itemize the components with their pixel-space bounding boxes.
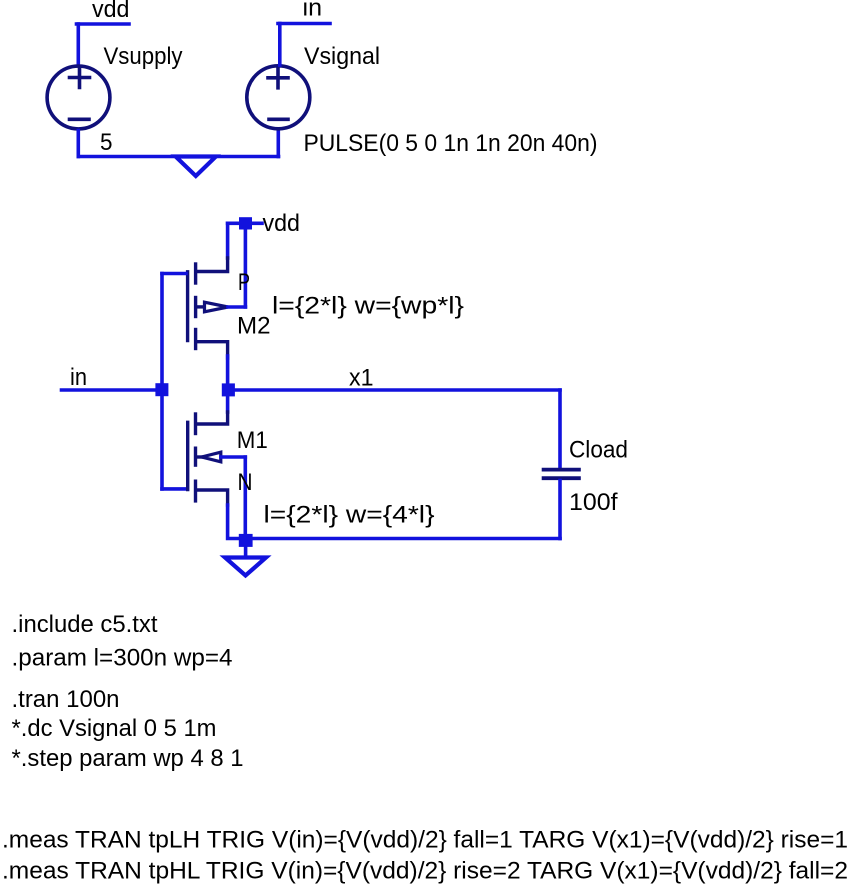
- transistor M2 (PMOS): [188, 258, 228, 358]
- wire gnd rail bottom: [253, 537, 560, 541]
- svg-text:Vsignal: Vsignal: [304, 43, 380, 70]
- wire in label lead: [278, 22, 330, 26]
- wire gates vertical: [160, 274, 164, 489]
- svg-text:.tran 100n: .tran 100n: [12, 686, 120, 713]
- svg-text:100f: 100f: [569, 489, 618, 516]
- wire vdd stub left: [228, 222, 239, 226]
- transistor M1 (NMOS): [188, 412, 228, 505]
- svg-text:l={2*l} w={wp*l}: l={2*l} w={wp*l}: [272, 293, 464, 320]
- wire in lead: [62, 388, 163, 392]
- wire x1: [235, 388, 560, 392]
- wire M1 bulk to gnd: [244, 457, 248, 534]
- junction out: [222, 383, 235, 396]
- svg-text:.meas TRAN tpLH TRIG V(in)={V(: .meas TRAN tpLH TRIG V(in)={V(vdd)/2} fa…: [2, 827, 848, 854]
- wire vdd to M2 source: [226, 223, 230, 258]
- wire gnd stub: [244, 547, 248, 557]
- voltage source Vsupply: [47, 66, 110, 129]
- wire Vsignal minus to gnd rail: [276, 131, 280, 157]
- wire M1 gate lead: [162, 487, 186, 491]
- wire Cload to gnd rail: [558, 481, 562, 539]
- svg-text:Vsupply: Vsupply: [104, 43, 183, 70]
- svg-text:in: in: [70, 364, 87, 391]
- svg-text:.meas TRAN tpHL TRIG V(in)={V(: .meas TRAN tpHL TRIG V(in)={V(vdd)/2} ri…: [2, 858, 848, 885]
- svg-text:PULSE(0 5 0 1n 1n 20n 40n): PULSE(0 5 0 1n 1n 20n 40n): [304, 130, 598, 157]
- svg-text:vdd: vdd: [92, 0, 130, 23]
- svg-text:.include c5.txt: .include c5.txt: [12, 611, 158, 638]
- wire Vsupply minus to gnd rail: [77, 131, 81, 157]
- svg-text:*.step param wp 4 8 1: *.step param wp 4 8 1: [12, 745, 244, 772]
- wire M2 gate lead: [162, 272, 186, 276]
- wire vdd stub right: [252, 222, 262, 226]
- wire in to Vsignal plus: [278, 24, 282, 66]
- wire M2 bulk lead: [228, 305, 245, 309]
- wire M1 source to gnd: [228, 505, 239, 539]
- wire vdd to M2 bulk: [244, 230, 248, 307]
- wire gnd rail: [78, 155, 278, 159]
- junction vdd: [239, 217, 252, 229]
- svg-text:Cload: Cload: [569, 437, 628, 464]
- svg-text:l={2*l} w={4*l}: l={2*l} w={4*l}: [264, 502, 435, 529]
- junction in: [155, 383, 168, 396]
- svg-text:N: N: [238, 469, 253, 496]
- svg-text:P: P: [238, 269, 250, 296]
- wire vdd label lead: [77, 22, 130, 26]
- svg-text:x1: x1: [349, 365, 374, 392]
- wire M1 bulk lead: [221, 455, 246, 459]
- wire x1 to Cload: [558, 390, 562, 467]
- svg-text:in: in: [303, 0, 323, 22]
- wire out to M1 drain: [226, 396, 230, 412]
- wire vdd to Vsupply plus: [77, 24, 81, 65]
- junction gnd: [239, 534, 253, 547]
- svg-text:*.dc Vsignal 0 5 1m: *.dc Vsignal 0 5 1m: [12, 715, 217, 742]
- svg-text:.param l=300n wp=4: .param l=300n wp=4: [12, 645, 233, 672]
- ground (bottom): [225, 558, 266, 576]
- capacitor Cload: [544, 470, 579, 479]
- svg-text:M1: M1: [237, 427, 268, 454]
- svg-text:M2: M2: [237, 313, 271, 340]
- ground (top): [176, 157, 216, 177]
- voltage source Vsignal: [247, 66, 310, 129]
- svg-text:vdd: vdd: [263, 210, 301, 237]
- wire M2 drain to out: [226, 356, 230, 383]
- svg-text:5: 5: [100, 129, 113, 156]
